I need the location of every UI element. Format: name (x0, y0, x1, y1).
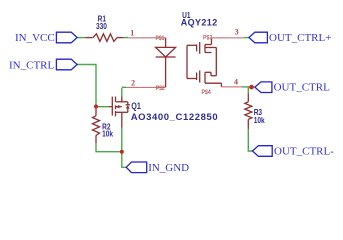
svg-text:4: 4 (234, 78, 238, 87)
svg-text:OUT_CTRL+: OUT_CTRL+ (269, 32, 331, 44)
svg-text:1: 1 (130, 28, 134, 37)
svg-text:330: 330 (96, 21, 107, 31)
svg-text:3: 3 (235, 27, 239, 36)
svg-text:AO3400_C122850: AO3400_C122850 (131, 112, 219, 123)
svg-text:P$2: P$2 (156, 86, 165, 93)
svg-text:Q1: Q1 (131, 101, 141, 111)
svg-text:10k: 10k (102, 129, 114, 139)
svg-text:OUT_CTRL-: OUT_CTRL- (274, 146, 334, 158)
svg-text:P$4: P$4 (202, 90, 212, 97)
svg-text:AQY212: AQY212 (181, 17, 218, 27)
svg-text:2: 2 (131, 78, 135, 87)
svg-text:OUT_CTRL: OUT_CTRL (274, 81, 331, 93)
svg-text:10k: 10k (254, 115, 266, 125)
svg-text:P$1: P$1 (156, 35, 166, 42)
svg-text:IN_VCC: IN_VCC (15, 32, 55, 44)
svg-text:P$3: P$3 (203, 35, 213, 42)
svg-text:IN_CTRL: IN_CTRL (9, 60, 55, 72)
svg-text:IN_GND: IN_GND (148, 162, 189, 174)
